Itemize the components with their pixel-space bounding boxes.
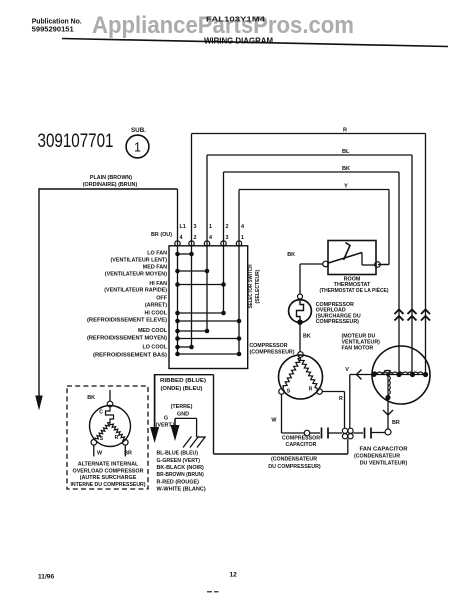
svg-text:(REFROIDISSEMENT BAS): (REFROIDISSEMENT BAS) [93,353,167,359]
svg-text:BR: BR [124,451,132,457]
svg-text:BL-BLUE (BLEU): BL-BLUE (BLEU) [157,451,199,457]
svg-text:FAL103Y1M4: FAL103Y1M4 [206,17,265,24]
svg-text:(COMPRESSEUR): (COMPRESSEUR) [249,350,294,356]
svg-text:BK: BK [87,395,95,401]
svg-text:INTERNE DU COMPRESSEUR): INTERNE DU COMPRESSEUR) [71,482,146,488]
svg-text:3: 3 [194,224,197,230]
svg-text:(TERRE): (TERRE) [171,404,193,410]
svg-text:L1: L1 [180,224,186,230]
svg-text:LO COOL: LO COOL [142,345,167,351]
svg-text:C: C [99,410,103,416]
svg-text:BK: BK [287,252,295,258]
svg-text:S: S [287,389,291,395]
svg-text:CAPACITOR: CAPACITOR [286,442,317,448]
svg-text:(VENTILATEUR RAPIDE): (VENTILATEUR RAPIDE) [104,288,167,294]
svg-text:S: S [100,436,104,442]
svg-text:PLAIN (BROWN): PLAIN (BROWN) [90,175,132,181]
svg-text:G: G [164,416,168,422]
svg-text:R: R [309,387,313,393]
svg-text:11/96: 11/96 [38,574,54,581]
svg-text:R: R [343,128,347,134]
svg-text:309107701: 309107701 [38,131,114,152]
svg-text:SELECTOR SWITCH: SELECTOR SWITCH [248,264,254,308]
svg-text:12: 12 [230,572,238,579]
svg-text:(CONDENSATEUR: (CONDENSATEUR [354,454,400,460]
svg-text:BR-BROWN (BRUN): BR-BROWN (BRUN) [157,472,204,478]
svg-text:(AUTRE SURCHARGE: (AUTRE SURCHARGE [80,475,137,481]
svg-text:BK: BK [342,166,350,172]
svg-text:4: 4 [241,224,244,230]
svg-text:G-GREEN (VERT): G-GREEN (VERT) [157,458,201,464]
svg-text:OVERLOAD COMPRESSOR: OVERLOAD COMPRESSOR [73,468,144,474]
svg-text:3: 3 [226,235,229,241]
svg-text:(ONDE) (BLEU): (ONDE) (BLEU) [161,386,203,392]
svg-text:1: 1 [241,235,244,241]
svg-text:R: R [115,435,119,441]
svg-text:(REFROIDISSEMENT MOYEN): (REFROIDISSEMENT MOYEN) [87,336,167,342]
svg-text:Publication No.: Publication No. [32,19,82,26]
svg-text:(VENTILATEUR MOYEN): (VENTILATEUR MOYEN) [105,272,167,278]
svg-text:LO FAN: LO FAN [147,251,167,257]
svg-text:(CONDENSATEUR: (CONDENSATEUR [271,457,317,463]
svg-text:4: 4 [209,235,212,241]
svg-text:COMPRESSEUR): COMPRESSEUR) [316,319,359,325]
svg-text:SUB.: SUB. [131,127,146,134]
svg-text:RIBBED (BLUE): RIBBED (BLUE) [160,378,206,384]
svg-text:4: 4 [180,235,183,241]
svg-text:HI FAN: HI FAN [149,281,167,287]
svg-text:BL: BL [342,149,350,155]
svg-text:(SELECTEUR): (SELECTEUR) [255,269,261,303]
svg-text:R: R [339,396,343,402]
svg-text:HI COOL: HI COOL [145,311,168,317]
svg-text:FAN CAPACITOR: FAN CAPACITOR [360,447,408,453]
svg-text:COMPRESSOR: COMPRESSOR [282,436,320,442]
svg-text:1: 1 [209,224,212,230]
svg-text:ALTERNATE INTERNAL: ALTERNATE INTERNAL [78,462,139,468]
svg-text:COMPRESSOR: COMPRESSOR [249,343,287,349]
svg-text:OFF: OFF [156,296,167,302]
svg-text:DU VENTILATEUR): DU VENTILATEUR) [360,461,408,467]
svg-text:BK-BLACK (NOIR): BK-BLACK (NOIR) [157,465,204,471]
svg-text:W-WHITE (BLANC): W-WHITE (BLANC) [157,487,206,493]
svg-text:(THERMOSTAT DE LA PIÈCE): (THERMOSTAT DE LA PIÈCE) [320,286,389,294]
svg-text:1: 1 [134,141,141,155]
svg-text:V: V [345,367,349,373]
svg-text:MED FAN: MED FAN [143,265,167,271]
svg-text:FAN MOTOR: FAN MOTOR [342,346,374,352]
svg-text:BR: BR [392,420,400,426]
svg-text:GND: GND [177,412,189,418]
svg-text:MED COOL: MED COOL [138,328,168,334]
svg-text:2: 2 [226,224,229,230]
svg-text:(ARRET): (ARRET) [145,303,167,309]
svg-text:(ORDINAIRE) (BRUN): (ORDINAIRE) (BRUN) [83,182,138,188]
svg-text:R-RED (ROUGE): R-RED (ROUGE) [157,479,200,485]
svg-text:DU COMPRESSEUR): DU COMPRESSEUR) [268,464,321,470]
svg-text:2: 2 [194,235,197,241]
svg-text:BK: BK [303,334,311,340]
svg-text:(VENTILATEUR LENT): (VENTILATEUR LENT) [111,258,168,264]
svg-text:Y: Y [344,184,348,190]
svg-text:5995290151: 5995290151 [32,27,74,34]
svg-text:(REFROIDISSEMENT ELEVE): (REFROIDISSEMENT ELEVE) [87,318,167,324]
svg-text:BR (OU): BR (OU) [151,232,172,238]
